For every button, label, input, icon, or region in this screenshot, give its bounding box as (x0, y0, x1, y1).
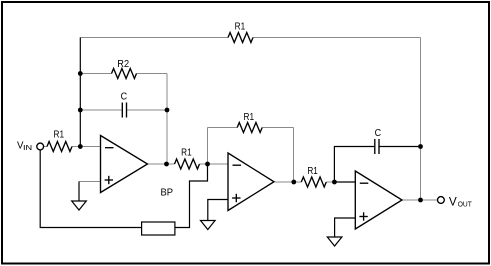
op-amp U1 (101, 136, 148, 193)
wire: Vin row leads into op-amp U1 inverting input (44, 146, 47, 148)
svg-text:OUT: OUT (458, 200, 472, 209)
wire: ground drop U1 (78, 182, 80, 202)
resistor R2 (112, 69, 137, 79)
svg-text:R1: R1 (54, 129, 65, 140)
resistor R1 (U2 feedback) (237, 123, 262, 133)
wire: U3 integrator feedback C loop (334, 147, 374, 183)
node: Vout / LP output (418, 198, 423, 203)
node: U3 inverting input (332, 180, 337, 185)
wire: U1 non-inverting input stub (79, 181, 101, 183)
wire: U2 output to R1 (275, 181, 301, 183)
node: U1 inverting input (78, 144, 83, 149)
node BP: U1 output (164, 162, 169, 167)
ground (U1) (72, 201, 87, 210)
svg-text:R1: R1 (307, 166, 318, 177)
node: U2 output (291, 180, 296, 185)
terminal Vout (438, 197, 445, 204)
wire: R2 row horizontal leads (80, 73, 111, 75)
svg-text:C: C (121, 92, 128, 103)
node: C1 right at BP vertical (165, 108, 170, 113)
svg-text:R2: R2 (117, 59, 129, 70)
wire: U2 feedback loop left vertical (207, 128, 209, 165)
svg-text:IN: IN (23, 143, 32, 152)
wire: right vertical from top feedback down to Vout node (420, 38, 422, 201)
resistor R1 (U2 to U3) (301, 177, 326, 187)
op-amp U3 (355, 171, 402, 229)
wire: U2 feedback loop horizontal leads (208, 127, 238, 129)
wire: U3 non-inverting input stub and ground drop (335, 218, 356, 237)
svg-text:R1: R1 (235, 21, 246, 32)
wire: box resistor to U2 inverting node, L path (175, 164, 208, 228)
terminal Vin (37, 143, 44, 150)
wire: left vertical from top feedback down input summing node (79, 38, 81, 147)
node: U2 inverting input (205, 162, 210, 167)
resistor R1 (input from Vin) (47, 142, 72, 152)
ground (U3) (327, 237, 342, 246)
svg-text:BP: BP (161, 188, 174, 199)
wire: U2 non-inverting input stub and ground drop (208, 200, 228, 221)
svg-text:R1: R1 (244, 112, 255, 123)
wire: C1 row horizontal leads (80, 109, 122, 111)
wire: R1 to U3 inverting node (326, 181, 334, 183)
wire: top feedback from LP output node to input node, horizontal run (80, 37, 228, 39)
node: input node at C1 row (78, 108, 83, 113)
wire: R1 to U2 inverting input (200, 163, 229, 165)
resistor R1 (top feedback) (228, 33, 253, 43)
node: input node at R2 row (78, 71, 83, 76)
svg-text:R1: R1 (181, 148, 192, 159)
capacitor C (U3 integrator feedback) (374, 139, 376, 154)
resistor (box, unlabeled) in bottom feed (142, 222, 175, 235)
svg-text:V: V (449, 194, 457, 208)
resistor R1 (BP to U2) (175, 159, 200, 169)
wire: U1 output to BP node and on to R1 (148, 163, 175, 165)
svg-text:C: C (375, 128, 382, 139)
wire: node to U3 inverting input (334, 181, 355, 183)
wire: U3 output to Vout terminal (402, 199, 438, 201)
node: C2 right on output vertical (418, 144, 423, 149)
capacitor C (first integrator) (121, 103, 123, 118)
wire: vertical from R2/C1 right side down to BP node (166, 74, 168, 165)
wire: Vin drop and bottom run to box resistor (40, 150, 141, 228)
ground (U2) (201, 221, 216, 230)
op-amp U2 (228, 153, 274, 211)
wire: U2 feedback loop right vertical to output node (293, 128, 295, 183)
